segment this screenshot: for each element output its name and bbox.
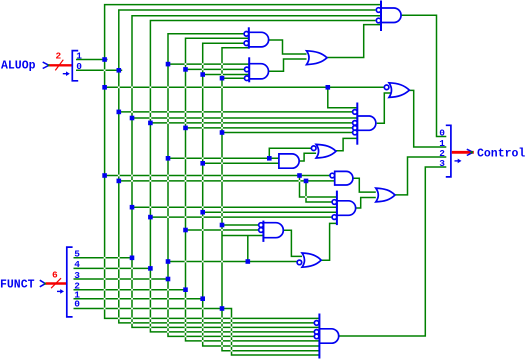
wire row to U5 in1 — [105, 86, 385, 88]
wire branch from row261 to U12 in3 — [247, 236, 249, 262]
wire row to U3 in3 — [203, 74, 250, 76]
junction at (118.8,180.9) — [117, 179, 122, 184]
and-gate U1 (Control bit0) — [376, 1, 401, 32]
wire row to U9 in1 — [105, 175, 331, 177]
wire row to U3 in4 — [222, 77, 245, 79]
junction at (168,279) — [166, 277, 171, 282]
junction at (132,257.8) — [130, 256, 135, 261]
ALUOp red bus line width 2 — [50, 60, 73, 71]
wire branch to U10 in2 — [306, 181, 332, 202]
junction at (247.8,261.5) — [246, 259, 251, 264]
junction at (222,308.5) — [220, 306, 225, 311]
junction at (104.6,87.3) — [102, 85, 107, 90]
junction at (150.4,268.4) — [148, 266, 153, 271]
wire crossing hop breaks — [104, 63, 307, 351]
junction at (222,78.2) — [220, 76, 225, 81]
junction at (185.5,289.7) — [183, 287, 188, 292]
junction at (132,118) — [130, 116, 135, 121]
svg-text:2: 2 — [56, 50, 62, 61]
junction at (222,225) — [220, 223, 225, 228]
wire net FUNCT5: row to U1, trunk, row to U14 — [132, 16, 381, 328]
wire net ALUOp0: row to U1, trunk, row to U14 — [119, 10, 376, 323]
and-gate U3 — [245, 57, 269, 82]
svg-text:1: 1 — [76, 51, 82, 62]
wire row to U9 in2 — [119, 180, 335, 182]
FUNCT splitter bracket — [67, 247, 73, 317]
wire row to U8 in2 — [203, 162, 279, 164]
wire U2 output to U4 in1 — [269, 40, 307, 54]
junction at (269.3,158.3) — [267, 156, 272, 161]
junction at (202.7,212.2) — [200, 210, 205, 215]
and-gate U10 — [332, 191, 356, 226]
junction at (118.8,111.9) — [117, 110, 122, 115]
ALUOp splitter bracket — [72, 51, 78, 81]
svg-text:Control: Control — [477, 147, 525, 160]
and-gate U6 — [353, 103, 376, 145]
junction at (202.7,74.5) — [200, 72, 205, 77]
wire U3 output to U4 in2 — [269, 59, 307, 71]
wire row to U3 in2 — [186, 68, 245, 70]
wire net FUNCT4: row to U1, trunk, row to U14 — [150, 21, 375, 332]
junction at (104.6,175.5) — [102, 173, 107, 178]
junction at (132,207.2) — [130, 205, 135, 210]
and-gate U9 — [330, 171, 353, 185]
or-gate U5 — [384, 83, 409, 98]
junction at (202.7,298.7) — [200, 296, 205, 301]
wire row to U10 in4 — [203, 211, 337, 213]
wire FUNCT bit2 — [74, 289, 186, 291]
wire row to U10 in3 — [132, 206, 337, 208]
junction at (104.6,59.5) — [102, 57, 107, 62]
junction at (168,261.5) — [166, 259, 171, 264]
ALUOp direction arrow — [63, 71, 70, 76]
wire U6 output to U5 in2 — [377, 93, 391, 123]
wire branch to U7 in1 — [269, 148, 312, 158]
junction at (222,132.5) — [220, 130, 225, 135]
wire row to U6 in3 — [132, 117, 357, 119]
Control direction arrow — [455, 159, 462, 164]
Control red bus line — [452, 151, 474, 154]
wire row to U12 in2 — [186, 229, 259, 231]
wire row to U13 in2 — [168, 261, 297, 263]
svg-text:3: 3 — [74, 270, 80, 281]
wire row to U12 in1 — [222, 224, 259, 226]
wire ALUOp bit1 — [76, 59, 108, 61]
svg-text:ALUOp: ALUOp — [1, 59, 36, 72]
wire branch to U10 in1 — [300, 176, 337, 198]
wire U4 output to U1 in5 — [327, 25, 381, 58]
junction at (150.4,217.1) — [148, 215, 153, 220]
junction at (327.8,87.3) — [326, 85, 331, 90]
wire U1 output to Control bit0 — [401, 15, 446, 136]
and-gate U14 (Control bit3) — [314, 314, 338, 359]
wire FUNCT bit5 — [74, 257, 133, 259]
Control merger bracket — [446, 125, 451, 177]
wire net FUNCT0: row to U2, trunk, row to U14 — [222, 48, 319, 351]
junction at (202.7,163.3) — [200, 161, 205, 166]
wire net FUNCT2: row to U2, trunk, row to U14 — [186, 38, 320, 341]
wire row to U6 in6 — [222, 132, 352, 134]
svg-text:4: 4 — [74, 259, 80, 270]
wire row to U3 in1 — [168, 63, 249, 65]
wire U9 output to U11 in1 — [353, 178, 376, 192]
wire branch to U6 in1 — [328, 87, 358, 108]
junction at (306,180.9) — [304, 179, 309, 184]
FUNCT red bus line width 6 — [46, 278, 67, 288]
junction at (299.5,175.5) — [297, 173, 302, 178]
wire net FUNCT1: row to U2, trunk, row to U14 — [203, 43, 319, 346]
wire U5 output to Control bit1 — [409, 90, 446, 147]
wire row to U6 in2 — [119, 111, 352, 113]
Control port chevron — [467, 149, 473, 155]
wire U8 output to U7 in2 — [299, 153, 316, 161]
ALUOp port chevron — [43, 62, 49, 68]
svg-text:5: 5 — [74, 249, 80, 260]
wire ALUOp bit0 — [76, 69, 122, 71]
and-gate U2 — [244, 27, 269, 48]
and-gate U8 — [279, 154, 299, 168]
wire U10 output to U11 in2 — [356, 198, 376, 209]
wire FUNCT bit3 — [74, 278, 169, 280]
junction at (168,64.1) — [166, 62, 171, 67]
wire U7 output to U6 in7 — [336, 138, 357, 150]
or-gate U13 — [297, 253, 321, 267]
FUNCT direction arrow — [57, 289, 64, 294]
wire U13 output to U10 in6 — [321, 223, 337, 260]
wire row to U12 in3 — [222, 235, 263, 237]
junction at (185.5,230) — [183, 228, 188, 233]
svg-text:0: 0 — [74, 298, 80, 309]
wire FUNCT0 branch to U14 bottom — [222, 309, 319, 356]
wire row to U8 in1 — [168, 157, 279, 159]
and-gate U12 — [259, 221, 284, 242]
junction at (185.5,69.4) — [183, 67, 188, 72]
wire FUNCT bit1 — [74, 298, 203, 300]
svg-text:6: 6 — [52, 269, 58, 280]
wire row to U10 in5 — [150, 216, 332, 218]
wire FUNCT bit4 — [74, 267, 151, 269]
junction at (185.5,127.9) — [183, 126, 188, 131]
junction at (168,158.3) — [166, 156, 171, 161]
svg-text:0: 0 — [76, 61, 82, 72]
junction at (118.8,70.3) — [117, 68, 122, 73]
wire FUNCT bit0 — [74, 308, 223, 310]
wire U12 output to U13 in1 — [283, 230, 302, 256]
wire net ALUOp1: row to U1, trunk, row to U14 — [105, 5, 381, 319]
svg-text:0: 0 — [439, 127, 445, 138]
junction at (150.4,122.9) — [148, 121, 153, 126]
or-gate U4 — [307, 51, 328, 65]
svg-text:3: 3 — [439, 158, 445, 169]
wire U14 output to Control bit3 — [339, 167, 447, 336]
wire row to U6 in4 — [150, 122, 352, 124]
or-gate U11 — [376, 188, 395, 202]
or-gate U7 — [311, 144, 336, 158]
FUNCT port chevron — [40, 280, 45, 287]
wire net FUNCT3: row to U2, trunk, row to U14 — [168, 34, 315, 337]
wire row to U6 in5 — [186, 127, 353, 129]
svg-text:FUNCT: FUNCT — [0, 279, 35, 292]
wire U11 output to Control bit2 — [395, 157, 446, 195]
